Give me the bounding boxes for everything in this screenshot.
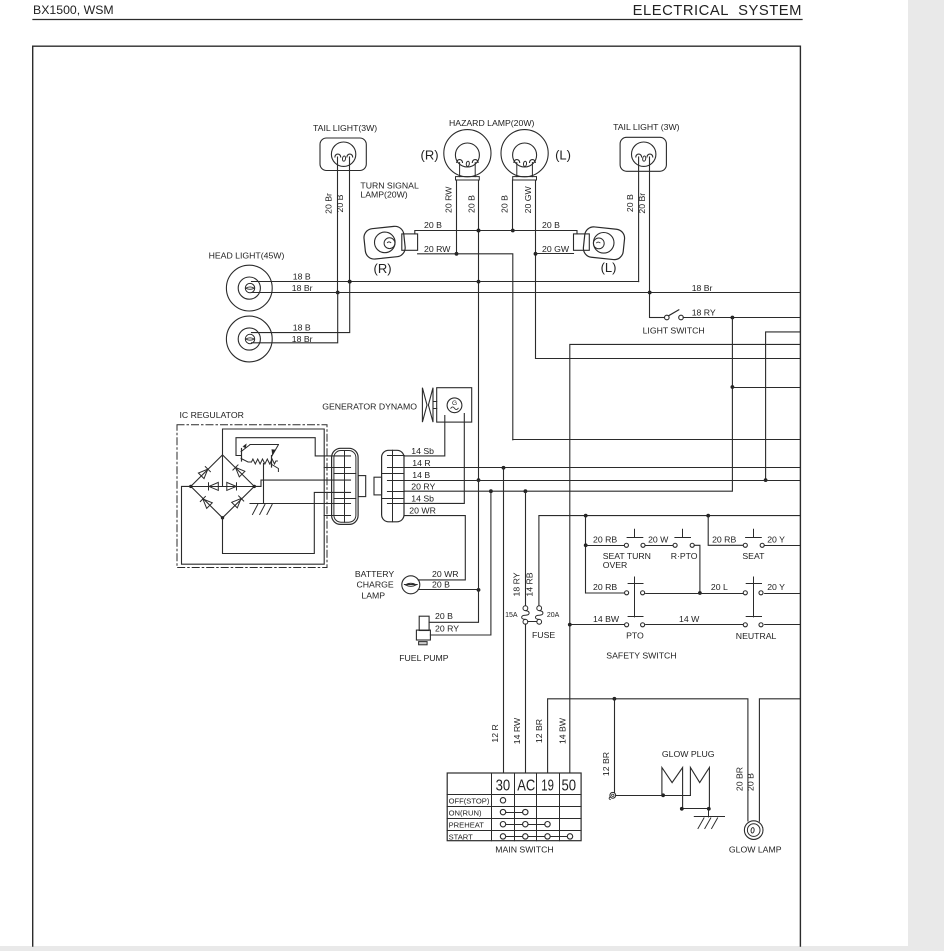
diode D4 (lower-right edge): [232, 499, 241, 508]
svg-text:20 RY: 20 RY: [411, 482, 435, 492]
svg-text:OVER: OVER: [603, 560, 628, 570]
wire 20 B from hazard L: [512, 180, 514, 231]
regulator transistor Q2: [271, 456, 273, 468]
lamp head light 1: [226, 265, 272, 311]
svg-text:20 Y: 20 Y: [767, 535, 785, 545]
regulator wire from diamond top to bus: [182, 429, 325, 564]
wire 18 Br bus: [252, 292, 801, 294]
generator pulley: [422, 388, 427, 422]
connector dynamo side: [382, 450, 404, 522]
svg-text:20 Y: 20 Y: [767, 582, 785, 592]
safety switch NEUTRAL row2: [743, 591, 747, 595]
svg-text:20 WR: 20 WR: [409, 506, 436, 516]
wire 20 GW from hazard L: [535, 180, 537, 358]
glow connector: [610, 792, 616, 798]
svg-text:SEAT: SEAT: [742, 551, 765, 561]
wire 20 GW to border: [536, 358, 801, 360]
main switch contacts OFF row: [500, 798, 505, 803]
svg-text:14 RB: 14 RB: [524, 572, 534, 596]
wire glow connector to glow plugs: [616, 795, 691, 797]
svg-text:20 B: 20 B: [467, 195, 477, 213]
wire 20 RY fuel pump: [430, 491, 491, 635]
svg-text:12 BR: 12 BR: [601, 752, 611, 776]
main switch table frame: [447, 773, 581, 841]
svg-text:R·PTO: R·PTO: [671, 551, 698, 561]
wire 12 BR drop to glow connector: [614, 699, 616, 793]
svg-text:19: 19: [541, 778, 554, 795]
svg-text:(L): (L): [555, 148, 571, 163]
svg-text:20 RB: 20 RB: [712, 535, 736, 545]
svg-text:18 RY: 18 RY: [692, 307, 716, 317]
lamp turn signal (R) housing: [363, 225, 406, 260]
wire 14 Sb second stub: [388, 503, 405, 505]
svg-text:14 Sb: 14 Sb: [411, 494, 434, 504]
svg-text:GLOW LAMP: GLOW LAMP: [729, 845, 782, 855]
svg-text:20 L: 20 L: [711, 582, 728, 592]
svg-text:LIGHT SWITCH: LIGHT SWITCH: [643, 325, 705, 335]
svg-text:20 B: 20 B: [625, 194, 635, 212]
svg-text:20 B: 20 B: [500, 195, 510, 213]
svg-text:20 B: 20 B: [435, 611, 453, 621]
glow plug 1: [662, 768, 683, 809]
svg-text:BX1500, WSM: BX1500, WSM: [33, 3, 114, 17]
wire 18 Br head light 2: [252, 293, 338, 343]
svg-text:14 W: 14 W: [679, 614, 700, 624]
PTO plunger: [634, 577, 636, 617]
svg-text:18 Br: 18 Br: [292, 283, 313, 293]
wire 20 Br from tail light left: [337, 157, 339, 293]
wire 20 B from tail light left: [349, 157, 351, 282]
svg-text:20 B: 20 B: [424, 220, 442, 230]
bridge rectifier diamond: [191, 455, 255, 518]
lamp TAIL LIGHT(3W) left housing: [320, 138, 366, 171]
svg-text:15A: 15A: [505, 612, 518, 619]
diode D6 (center right): [227, 482, 236, 490]
lamp GLOW LAMP: [744, 821, 763, 840]
wire 14 W: [646, 624, 743, 626]
regulator ground symbol: [250, 503, 280, 505]
wire 20 Y row1 to border: [765, 545, 801, 547]
wire 14 R to border: [388, 467, 801, 469]
switch LIGHT SWITCH: [650, 317, 665, 319]
svg-text:14 BW: 14 BW: [593, 614, 620, 624]
wire 14 W to border: [765, 624, 801, 626]
diagram border frame: [33, 46, 801, 946]
svg-text:20A: 20A: [547, 612, 560, 619]
IC REGULATOR enclosure (dash-dot): [177, 425, 327, 568]
svg-text:G: G: [452, 400, 457, 407]
lamp battery charge: [402, 576, 420, 594]
tail light right bulb: [632, 142, 656, 166]
wire 14 Sb pin stub: [388, 455, 405, 457]
svg-text:20 Br: 20 Br: [323, 193, 333, 214]
svg-text:18 Br: 18 Br: [292, 334, 313, 344]
wire dynamo to 14 Sb second: [404, 414, 464, 504]
fuse 20A element: [535, 611, 543, 620]
svg-text:20 B: 20 B: [335, 194, 345, 212]
svg-text:GLOW PLUG: GLOW PLUG: [662, 749, 715, 759]
diode D2 (upper-right edge): [236, 468, 245, 477]
lamp turn signal (L) housing: [582, 226, 625, 261]
safety switch R-PTO: [675, 537, 691, 539]
svg-text:20 RY: 20 RY: [435, 624, 459, 634]
regulator wire to pin1 (14 Sb): [236, 438, 351, 456]
wire 20 L: [646, 593, 743, 595]
svg-text:HEAD LIGHT(45W): HEAD LIGHT(45W): [209, 251, 285, 261]
svg-text:IC REGULATOR: IC REGULATOR: [180, 410, 244, 420]
turn signal (L) connector: [574, 234, 590, 250]
safety switch NEUTRAL row3 contacts: [743, 623, 747, 627]
wire 20 RB drop left: [585, 516, 587, 593]
connector regulator side: [332, 448, 359, 524]
regulator wire pin2 (14 R) stub: [324, 467, 350, 469]
wire 14 RW fuse to main switch: [525, 624, 527, 773]
svg-text:FUEL PUMP: FUEL PUMP: [399, 653, 449, 663]
svg-text:14 Sb: 14 Sb: [411, 446, 434, 456]
svg-text:20 RB: 20 RB: [593, 535, 617, 545]
wire 20 RB drop right: [708, 516, 743, 546]
svg-text:14 BW: 14 BW: [558, 717, 568, 744]
wire 18 B bus: [252, 281, 639, 283]
regulator wire Q1 to Q2: [250, 444, 278, 446]
wire 14 B to border: [388, 480, 801, 482]
NEUTRAL plunger: [753, 577, 755, 617]
svg-text:14 RW: 14 RW: [512, 717, 522, 744]
svg-text:(R): (R): [374, 261, 392, 276]
svg-text:50: 50: [562, 778, 577, 795]
lamp hazard (R) body: [444, 130, 491, 177]
svg-text:12 BR: 12 BR: [534, 719, 544, 743]
wire 20 RY stub: [388, 491, 405, 493]
lamp hazard (L) body: [501, 130, 548, 177]
wire 14 BW row3: [570, 624, 624, 626]
safety switch SEAT: [746, 537, 762, 539]
diode D5 (center left): [209, 482, 218, 490]
wire 20 RW from turn signal R: [418, 254, 513, 440]
svg-text:ON(RUN): ON(RUN): [449, 809, 482, 818]
header rule: [33, 19, 802, 21]
svg-text:20 B: 20 B: [746, 773, 756, 791]
main switch contacts PREHEAT row: [500, 822, 505, 827]
regulator wire pin5 ground to connector: [280, 503, 351, 505]
safety switch PTO row2: [586, 592, 624, 594]
svg-text:CHARGE: CHARGE: [357, 580, 394, 590]
wire 20 B fuel pump: [429, 480, 478, 622]
wire 20 Y row2 to border: [765, 593, 801, 595]
safety switch SEAT TURN OVER row1: [586, 545, 624, 547]
wire 14 BW from border down to safety/main switch: [570, 344, 801, 773]
regulator transistor Q1: [241, 449, 243, 462]
svg-text:FUSE: FUSE: [532, 630, 555, 640]
generator dynamo body: [437, 388, 472, 422]
svg-text:30: 30: [496, 778, 511, 795]
generator symbol G: [447, 398, 462, 413]
main switch contacts ON row: [500, 809, 505, 814]
wire 20 B glow lamp: [759, 699, 800, 821]
fuel pump body: [419, 616, 429, 630]
diode D3 (lower-left edge): [203, 499, 212, 508]
svg-text:HAZARD LAMP(20W): HAZARD LAMP(20W): [449, 118, 535, 128]
svg-text:20 W: 20 W: [648, 535, 669, 545]
wire R-PTO output down: [694, 545, 700, 593]
wire dynamo to 14 Sb: [404, 416, 445, 456]
wire 20 B branch to border: [766, 332, 801, 480]
svg-text:PREHEAT: PREHEAT: [449, 821, 485, 830]
wire 12 R to main switch: [503, 468, 505, 773]
wire 18 B head light 2: [252, 282, 350, 333]
svg-text:PTO: PTO: [626, 630, 644, 640]
svg-text:18 Br: 18 Br: [692, 283, 713, 293]
svg-text:18 B: 18 B: [293, 322, 311, 332]
wire 20 B from tail light right to 18 B line: [638, 157, 640, 282]
svg-text:20 GW: 20 GW: [542, 244, 570, 254]
svg-text:20 RB: 20 RB: [593, 582, 617, 592]
svg-text:LAMP(20W): LAMP(20W): [360, 189, 407, 199]
svg-text:SAFETY SWITCH: SAFETY SWITCH: [606, 651, 676, 661]
wire 14 RB from border to fuse 20A: [539, 516, 801, 606]
svg-text:GENERATOR DYNAMO: GENERATOR DYNAMO: [322, 402, 417, 412]
svg-text:18 RY: 18 RY: [512, 572, 522, 596]
tail light left bulb: [331, 142, 355, 166]
wire 18 RY from light switch to border: [683, 317, 800, 319]
svg-text:20 Br: 20 Br: [637, 193, 647, 214]
svg-text:20 RW: 20 RW: [444, 186, 454, 213]
svg-text:18 B: 18 B: [293, 271, 311, 281]
svg-text:20 BR: 20 BR: [735, 767, 745, 791]
svg-text:TAIL LIGHT(3W): TAIL LIGHT(3W): [313, 123, 377, 133]
ground symbol glow: [708, 809, 710, 817]
wire 20 B from hazard R down to 14 B line: [478, 180, 480, 480]
svg-text:AC: AC: [517, 778, 535, 795]
wire 20 WR down to battery charge lamp: [404, 516, 465, 580]
wire 18 RY branch to border: [732, 387, 800, 389]
glow plug ground bar: [681, 808, 709, 810]
wire 18 RY to fuse 15A: [525, 491, 527, 606]
svg-text:20 B: 20 B: [432, 580, 450, 590]
svg-text:START: START: [449, 833, 474, 842]
fuse bottom link: [528, 621, 537, 623]
wire row1 link to R-PTO: [646, 545, 673, 547]
wire 20 B from battery charge lamp: [418, 589, 478, 591]
glow plug 2: [690, 768, 709, 809]
svg-text:OFF(STOP): OFF(STOP): [449, 797, 490, 806]
diode D1 (upper-left edge): [198, 469, 207, 478]
svg-text:TAIL LIGHT (3W): TAIL LIGHT (3W): [613, 122, 680, 132]
wire 20 GW to turn signal L: [536, 253, 574, 255]
svg-text:ELECTRICAL SYSTEM: ELECTRICAL SYSTEM: [633, 3, 802, 19]
main switch contact links: [503, 812, 525, 814]
svg-text:BATTERY: BATTERY: [355, 569, 394, 579]
svg-text:(L): (L): [601, 260, 617, 275]
svg-text:20 WR: 20 WR: [432, 569, 459, 579]
svg-text:12 R: 12 R: [490, 724, 500, 742]
svg-text:(R): (R): [421, 148, 439, 163]
svg-text:20 RW: 20 RW: [424, 244, 451, 254]
svg-text:14 R: 14 R: [412, 458, 430, 468]
wire 20 RW to border: [513, 439, 801, 441]
wire 12 BR to main switch and glow: [548, 699, 748, 821]
lamp TAIL LIGHT (3W) right housing: [620, 137, 666, 171]
svg-text:NEUTRAL: NEUTRAL: [736, 631, 777, 641]
main switch contacts START row: [500, 834, 505, 839]
lamp head light 2: [226, 316, 272, 362]
regulator wire pin6 (20 WR) stub: [324, 515, 350, 517]
svg-text:LAMP: LAMP: [361, 590, 385, 600]
turn signal (R) connector: [402, 234, 418, 250]
safety switch PTO row3 contacts: [625, 623, 629, 627]
regulator resistors R1 R2: [252, 459, 278, 464]
svg-text:14 B: 14 B: [412, 470, 430, 480]
wire 20 Br from tail light right to light switch: [649, 157, 651, 318]
wire 20 RW from hazard R: [456, 180, 458, 254]
svg-text:20 B: 20 B: [542, 220, 560, 230]
regulator wire pin4 (20 RY) from diamond bottom: [223, 492, 351, 553]
wire 20 B bus between turn signal lamps: [415, 231, 577, 234]
svg-text:20 GW: 20 GW: [523, 185, 533, 213]
svg-text:MAIN SWITCH: MAIN SWITCH: [495, 845, 553, 855]
regulator wire pin3 (14 B) from diamond right: [254, 480, 350, 486]
fuse 15A element: [522, 611, 530, 620]
wire 18 RY vertical riser: [404, 318, 732, 492]
regulator ground wire from resistor tap: [263, 464, 265, 504]
